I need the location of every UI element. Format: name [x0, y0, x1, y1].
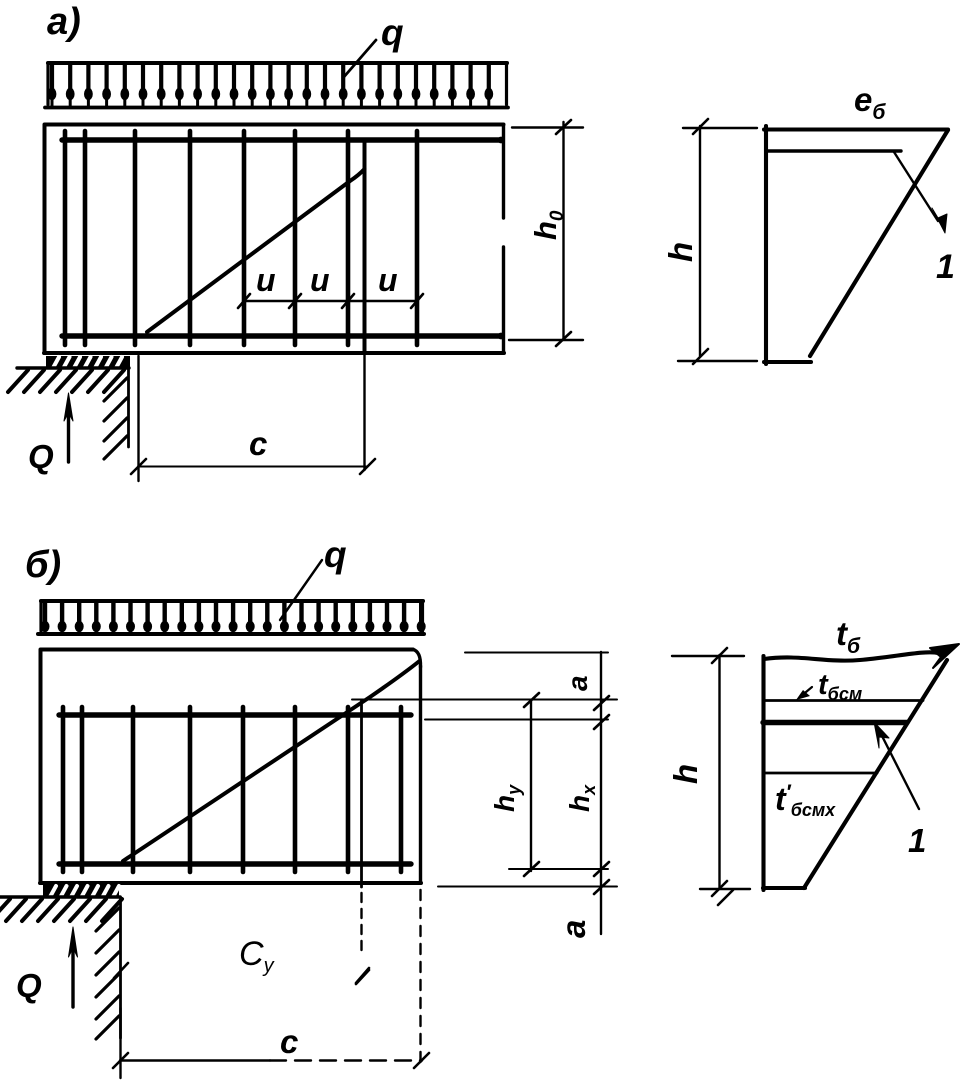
- support pad hatching (b): [43, 885, 119, 898]
- column edge (b): [119, 897, 122, 1038]
- h dimension (stress diagram b): [667, 648, 750, 905]
- longitudinal bottom bar (a): [62, 333, 501, 338]
- extension line stirrup top level (b): [425, 719, 608, 721]
- big arrow head top right (b): [930, 644, 959, 668]
- extension line at crack top (b): [356, 700, 369, 983]
- beam outline (a): [44, 125, 504, 354]
- C_y dimension label and ticks (b): [114, 935, 369, 984]
- leader with arrow to line 1 (a): [894, 152, 947, 233]
- c dimension (b): [113, 890, 429, 1078]
- support pad hatching (a): [46, 356, 130, 369]
- c dimension (a): [131, 356, 375, 481]
- label q (diagram a): [381, 12, 404, 53]
- diagonal crack (a): [147, 169, 365, 332]
- ground hatching (a): [8, 370, 124, 392]
- svg-text:б): б): [25, 544, 61, 586]
- label t_b (b): [836, 615, 861, 658]
- svg-text:q: q: [324, 534, 347, 575]
- h_y dimension line (b): [489, 693, 539, 876]
- tau_b.st.x line (b): [763, 772, 877, 775]
- svg-text:c: c: [280, 1023, 298, 1060]
- label Q (a): [28, 438, 54, 475]
- longitudinal top bar (b): [59, 712, 411, 717]
- svg-text:а): а): [47, 1, 81, 43]
- reaction arrow Q (a): [64, 393, 73, 462]
- stress diagram outline (b): [763, 652, 947, 890]
- extension line crack tip level (b): [352, 699, 617, 701]
- distributed load band (a): [45, 63, 508, 108]
- svg-text:1: 1: [936, 248, 955, 286]
- svg-text:Q: Q: [28, 438, 54, 475]
- column edge (a): [127, 368, 130, 447]
- svg-text:tбсм: tбсм: [818, 669, 862, 704]
- svg-text:t′бсмх: t′бсмх: [775, 781, 836, 820]
- ground line (a): [17, 366, 129, 369]
- svg-text:Q: Q: [16, 967, 42, 1004]
- u spacing dimension (a): [238, 262, 423, 308]
- svg-text:eб: eб: [854, 81, 886, 124]
- leader from q to load band (b): [280, 560, 322, 620]
- svg-text:tб: tб: [836, 615, 861, 658]
- label t_b.sm with small arrow (b): [796, 669, 862, 704]
- column hatching (b): [96, 908, 119, 1039]
- beam outline (b): [40, 650, 421, 884]
- svg-text:Cу: Cу: [239, 935, 275, 977]
- label 1 (b): [908, 822, 926, 859]
- svg-text:h0: h0: [528, 210, 568, 240]
- label t'_b.sm.x (b): [775, 781, 836, 820]
- leader from q to load band (a): [343, 40, 376, 78]
- label a): [47, 1, 81, 43]
- label tau_b (stress diagram a): [854, 81, 886, 124]
- longitudinal bottom bar (b): [59, 861, 411, 866]
- svg-text:1: 1: [908, 822, 926, 859]
- leader with arrow (b): [874, 722, 919, 809]
- tau_b.st line (b): [763, 699, 923, 702]
- svg-text:h: h: [667, 764, 704, 784]
- label b): [25, 544, 61, 586]
- reaction arrow Q (b): [69, 927, 78, 1007]
- label 1 (a): [936, 248, 955, 286]
- svg-text:u: u: [310, 262, 330, 298]
- svg-text:a: a: [555, 920, 592, 938]
- stress diagram outline (a): [764, 126, 948, 364]
- svg-text:hх: hх: [564, 784, 599, 812]
- stirrups (a): [62, 131, 505, 345]
- tau thick line (b): [763, 720, 907, 725]
- svg-text:q: q: [381, 12, 404, 53]
- diagonal crack (b): [123, 661, 420, 861]
- svg-text:a: a: [562, 675, 593, 691]
- label Q (b): [16, 967, 42, 1004]
- stirrups (b): [60, 707, 405, 872]
- extension line bottom bar level (b): [509, 868, 608, 870]
- extension line beam bottom level (b): [438, 886, 617, 888]
- extension line beam top level (b): [465, 652, 608, 654]
- svg-text:c: c: [249, 425, 267, 462]
- h dimension (stress diagram a): [662, 119, 757, 364]
- a / h_x / a dimension line (b): [555, 652, 609, 938]
- column hatching (a): [104, 378, 127, 459]
- svg-text:h: h: [662, 242, 699, 262]
- ground line (b): [0, 895, 120, 898]
- h0 dimension (a): [509, 120, 583, 346]
- label q (diagram b): [324, 534, 347, 575]
- svg-text:hу: hу: [489, 784, 524, 812]
- svg-text:u: u: [256, 262, 276, 298]
- longitudinal top bar (a): [62, 137, 501, 142]
- ground hatching (b): [0, 899, 122, 921]
- distributed load band (b): [38, 601, 426, 634]
- svg-text:u: u: [378, 262, 398, 298]
- extension line at crack top (a): [363, 142, 367, 470]
